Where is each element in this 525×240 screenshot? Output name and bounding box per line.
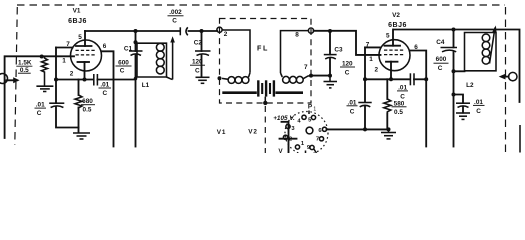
svg-text:C: C: [195, 67, 200, 74]
wire heater ground bus: [327, 127, 391, 131]
svg-text:V: V: [278, 148, 283, 153]
svg-text:C: C: [438, 65, 443, 72]
wire V1 cathode node: [56, 78, 94, 82]
svg-text:1.5K: 1.5K: [18, 59, 32, 66]
tuning arrow L2: [490, 25, 497, 63]
svg-text:5: 5: [78, 34, 82, 41]
wire FL pin 8 to V2 grid: [314, 31, 381, 55]
svg-text:580: 580: [394, 100, 405, 107]
svg-text:6: 6: [103, 43, 107, 50]
wire V2 plate to output tank: [394, 30, 520, 103]
socket pin 5: [311, 115, 315, 119]
socket pin 9: [310, 145, 314, 149]
capacitor C3 120: [324, 29, 355, 78]
svg-text:V1: V1: [73, 8, 81, 15]
svg-text:C: C: [120, 68, 125, 75]
svg-text:.01: .01: [36, 102, 45, 109]
socket P1: [283, 112, 328, 155]
svg-text:C: C: [37, 110, 42, 117]
svg-text:8: 8: [295, 32, 299, 39]
FL pin 8 terminal: [295, 28, 313, 39]
input jack J1: [0, 74, 20, 84]
svg-text:2: 2: [375, 66, 379, 73]
svg-text:5: 5: [386, 33, 390, 40]
border segment lower right: [519, 125, 521, 153]
svg-text:600: 600: [436, 56, 447, 63]
inductor L2: [454, 33, 497, 72]
svg-text:C2: C2: [194, 39, 203, 46]
svg-text:2: 2: [224, 31, 228, 38]
V2 plate (pin 5): [392, 30, 394, 46]
svg-text:0.5: 0.5: [394, 109, 403, 116]
svg-text:7: 7: [366, 41, 370, 48]
FL pin 2 terminal: [217, 27, 228, 38]
svg-text:120: 120: [342, 61, 353, 68]
wire V1 screen return: [102, 51, 114, 146]
ground (bus): [381, 129, 396, 139]
wire +105V feed: [280, 122, 297, 153]
capacitor .01 cathode to ground bus V1: [35, 80, 79, 128]
svg-text:L1: L1: [142, 82, 150, 89]
tuning arrow L1: [167, 36, 175, 79]
svg-text:2: 2: [70, 71, 74, 78]
V1 plate (pin 5): [84, 31, 86, 46]
socket pin 2: [283, 135, 287, 139]
svg-text:C: C: [172, 18, 177, 25]
wire V2 suppressor to cathode: [365, 47, 381, 102]
svg-text:C: C: [350, 108, 355, 115]
wire V1 plate to coupling: [85, 29, 180, 33]
resistor R2 680: [75, 80, 82, 133]
svg-text:120: 120: [192, 59, 203, 66]
svg-text:7: 7: [66, 41, 70, 48]
svg-text:C: C: [345, 70, 350, 77]
wire V1 suppressor to cathode: [54, 48, 73, 82]
FL output link: [281, 31, 312, 84]
inductor L1: [136, 42, 167, 77]
svg-text:V1: V1: [217, 129, 226, 136]
V1 cathode: [78, 61, 90, 63]
FL input link: [222, 30, 250, 84]
tube V2: [366, 30, 419, 80]
svg-text:P: P: [308, 104, 313, 111]
wire V2 cathode node: [363, 77, 409, 81]
svg-text:6BJ6: 6BJ6: [68, 18, 87, 25]
svg-text:V2: V2: [392, 12, 400, 19]
svg-text:C: C: [102, 90, 107, 97]
svg-text:7: 7: [316, 136, 319, 142]
label P1: [308, 104, 317, 114]
capacitor .01 cathode bypass V2: [397, 73, 428, 100]
svg-text:1: 1: [62, 58, 66, 65]
ground (V1 cathode): [73, 133, 90, 139]
svg-text:V2: V2: [248, 129, 257, 136]
svg-text:2: 2: [289, 137, 292, 143]
ground (output cap): [456, 113, 470, 119]
svg-text:.01: .01: [348, 99, 357, 106]
V1 grid rows: [76, 50, 95, 55]
svg-text:.01: .01: [100, 82, 109, 89]
FL resonator disks: [222, 80, 303, 105]
label 1.5K 0.5: [16, 59, 32, 74]
capacitor .01 screen bypass to ground: [347, 99, 372, 129]
capacitor C1 600: [116, 31, 143, 147]
V2 cathode: [386, 61, 398, 63]
socket pin 3: [286, 124, 290, 128]
capacitor .01 output to ground: [454, 95, 485, 115]
label 580 0.5: [392, 100, 407, 116]
ground (C2): [196, 77, 210, 83]
output jack J2: [499, 72, 517, 80]
capacitor C2 120: [190, 29, 211, 77]
svg-text:.01: .01: [398, 84, 407, 91]
wire V2 screen return: [410, 51, 427, 147]
wire input to V1 grid: [5, 56, 74, 138]
svg-text:680: 680: [82, 98, 93, 105]
resistor R1 1.5K: [40, 55, 48, 86]
ground (C3 / FL pin7): [324, 76, 338, 88]
resistor R3 580: [384, 79, 391, 129]
socket pin 7: [319, 137, 323, 141]
socket pin 4: [302, 115, 306, 119]
FL pin 1 terminal: [218, 76, 222, 80]
wire .002 to FL pin 2: [189, 30, 218, 32]
svg-text:7: 7: [304, 64, 308, 71]
FL pin 7 terminal: [304, 64, 330, 78]
capacitor .01 cathode bypass V1: [94, 74, 136, 97]
dashed line below FL: [264, 106, 266, 153]
tube V1: [62, 31, 107, 80]
socket bottom leads: [314, 149, 317, 154]
label V1 6BJ6: [68, 8, 87, 25]
V2 grid rows: [384, 50, 403, 55]
svg-text:L2: L2: [466, 82, 474, 89]
socket pin 1: [295, 145, 299, 149]
label V2 6BJ6: [388, 12, 407, 29]
svg-text:.002: .002: [169, 9, 182, 16]
ground (R1): [36, 86, 53, 91]
svg-text:FL: FL: [257, 43, 269, 52]
mechanical filter FL dashed box: [220, 19, 312, 104]
svg-text:C3: C3: [334, 46, 343, 53]
svg-text:0.5: 0.5: [83, 106, 92, 113]
shield enclosure dashed box: [15, 5, 506, 153]
label 680 0.5: [81, 98, 95, 113]
svg-text:1: 1: [313, 107, 316, 113]
svg-text:1: 1: [369, 56, 373, 63]
capacitor .002 coupling: [168, 9, 188, 35]
socket pin 6: [322, 127, 326, 131]
svg-text:6BJ6: 6BJ6: [388, 22, 407, 29]
svg-text:C4: C4: [436, 39, 445, 46]
svg-text:C: C: [476, 108, 481, 115]
capacitor C4 600: [434, 28, 458, 147]
